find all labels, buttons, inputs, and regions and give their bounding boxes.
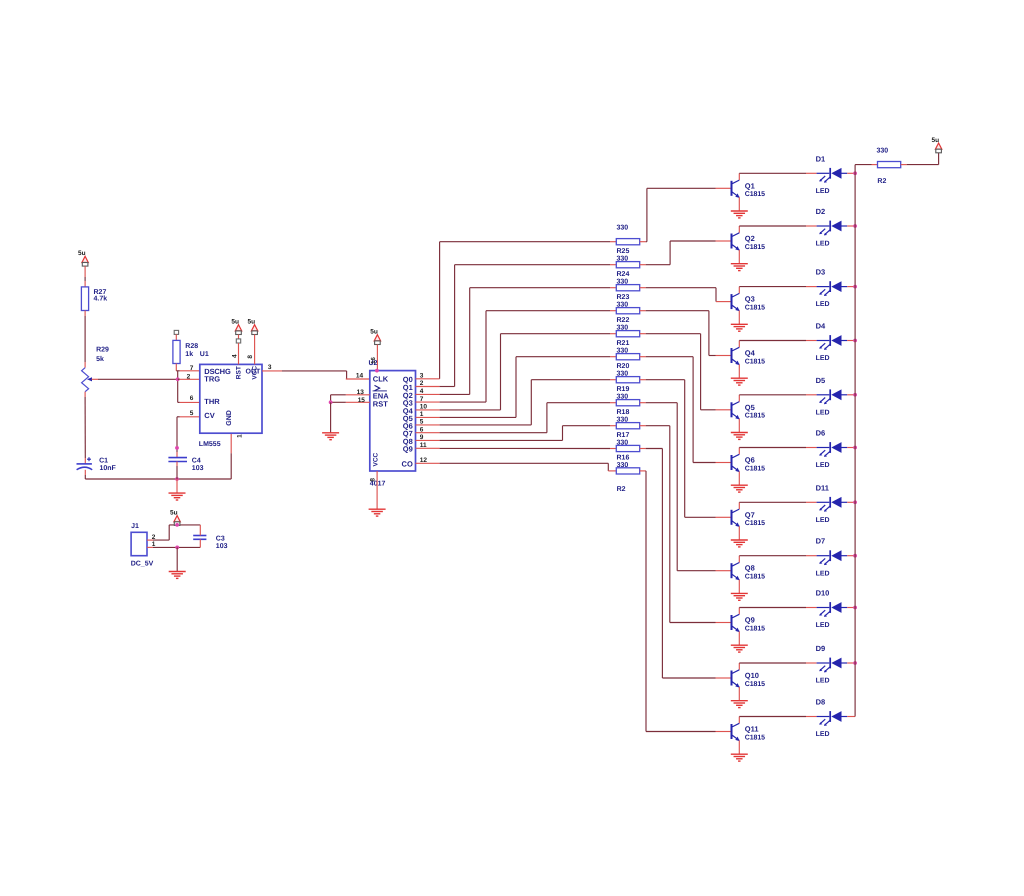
LED D6 left lead	[817, 447, 830, 449]
wire Q10 collector to D9	[739, 662, 806, 664]
LED D4	[829, 335, 831, 346]
junction bus D7	[853, 554, 857, 558]
wire Q8 collector to D7	[739, 555, 806, 557]
svg-text:330: 330	[617, 462, 629, 469]
wire R24 to Q2 base	[640, 264, 646, 266]
LED D11 light arrows	[819, 505, 830, 512]
svg-text:RST: RST	[236, 366, 243, 379]
resistor R21	[616, 331, 639, 337]
resistor R2 (bottom of column)	[616, 468, 639, 474]
transistor Q6	[732, 454, 740, 471]
svg-text:Q4: Q4	[745, 349, 756, 358]
svg-text:RST: RST	[373, 400, 388, 409]
wire J1 pin 2	[147, 539, 153, 541]
wire emitter to ground Q5	[738, 419, 740, 432]
svg-text:1: 1	[152, 541, 156, 548]
svg-text:330: 330	[877, 148, 889, 155]
wire emitter to ground Q11	[738, 741, 740, 754]
resistor R25	[616, 239, 639, 245]
LED D5	[829, 389, 831, 400]
wire R23 to Q3 base	[640, 287, 646, 289]
wire Q1 collector to D1	[739, 172, 806, 174]
transistor Q10	[732, 670, 740, 687]
svg-text:Q9: Q9	[403, 445, 413, 454]
wire power to 4017 VDD	[376, 345, 378, 371]
wire 4017 pin to R22	[416, 401, 440, 403]
wire 4017 pin to R25	[416, 378, 440, 380]
wire D2 anode to bus	[847, 225, 855, 227]
svg-text:13: 13	[357, 389, 365, 396]
svg-text:Q8: Q8	[745, 564, 755, 573]
wire 4017 pin to R17	[416, 439, 440, 441]
svg-text:5: 5	[190, 410, 194, 417]
wire D8 anode to bus	[847, 716, 855, 718]
junction bus D10	[853, 606, 857, 610]
svg-text:D2: D2	[816, 207, 826, 216]
svg-text:D1: D1	[816, 154, 826, 163]
svg-text:330: 330	[617, 394, 629, 401]
svg-text:8: 8	[369, 478, 376, 482]
potentiometer R29 wiper arrow	[87, 377, 92, 381]
wire R19 to Q7 base	[640, 379, 646, 381]
wire power to R27	[84, 266, 86, 277]
svg-text:5k: 5k	[96, 355, 104, 363]
transistor Q1 emitter arrow	[735, 193, 739, 198]
wire D10 anode to bus	[847, 607, 855, 609]
wire 4017 pin to R20	[416, 416, 440, 418]
svg-text:LED: LED	[816, 188, 830, 195]
svg-text:LED: LED	[816, 462, 830, 469]
wire 4017 pin to R19	[416, 424, 440, 426]
LED D6	[829, 442, 831, 453]
svg-text:330: 330	[617, 256, 629, 263]
junction VDD pin	[375, 369, 379, 373]
svg-text:5u: 5u	[78, 250, 86, 257]
wire power to RST square	[238, 335, 240, 339]
LED D9 light arrows	[819, 666, 830, 673]
resistor R18	[616, 400, 639, 406]
resistor R16	[616, 445, 639, 451]
counter U2 4017 body	[370, 371, 416, 471]
svg-text:C1815: C1815	[745, 520, 765, 527]
wire to 555 pin 5 CV	[177, 416, 180, 418]
LED D6 light arrows	[819, 450, 830, 457]
resistor R28	[173, 340, 180, 363]
svg-text:LED: LED	[816, 622, 830, 629]
wire D9 anode to bus	[847, 662, 855, 664]
transistor Q4 emitter arrow	[735, 361, 739, 366]
wire R21 to Q5 base	[640, 333, 646, 335]
svg-text:5u: 5u	[170, 509, 178, 516]
wire emitter to ground Q9	[738, 632, 740, 645]
capacitor C1	[77, 463, 92, 465]
svg-text:Q10: Q10	[745, 671, 759, 680]
svg-text:C1815: C1815	[745, 465, 765, 472]
power 5u (J1)	[174, 516, 180, 526]
LED D2	[829, 221, 831, 232]
transistor Q7 emitter arrow	[735, 522, 739, 527]
svg-text:330: 330	[617, 279, 629, 286]
potentiometer R29	[82, 368, 89, 392]
svg-text:LM555: LM555	[199, 441, 221, 448]
svg-text:C1815: C1815	[745, 734, 765, 741]
ground Q1	[731, 211, 748, 218]
wire R17 to Q9 base	[640, 425, 646, 427]
transistor Q3	[732, 293, 740, 310]
svg-text:330: 330	[617, 371, 629, 378]
wire 4017 pin to R23	[416, 393, 440, 395]
LED D9 right lead	[842, 662, 848, 664]
junction bus D2	[853, 224, 857, 228]
wire D7 anode to bus	[847, 555, 855, 557]
svg-text:4: 4	[231, 354, 238, 358]
transistor Q7	[732, 509, 740, 526]
svg-text:R22: R22	[617, 317, 630, 324]
svg-text:LED: LED	[816, 301, 830, 308]
capacitor C4	[168, 457, 187, 459]
LED D5 right lead	[842, 394, 848, 396]
junction CV-C4 pin dot	[175, 446, 179, 450]
wire C1 to ground rail	[84, 470, 86, 475]
LED D4 right lead	[842, 340, 848, 342]
LED D10 right lead	[842, 607, 848, 609]
wire square to chip RST	[238, 343, 240, 364]
transistor Q3 emitter arrow	[735, 307, 739, 312]
svg-text:5u: 5u	[231, 319, 239, 326]
wire Q9 collector to D10	[739, 607, 806, 609]
ground under 4017	[369, 509, 386, 516]
svg-text:C1815: C1815	[745, 413, 765, 420]
wire ENA pin 13	[346, 394, 370, 396]
capacitor C4 wire to rail	[176, 462, 178, 467]
ground Q9	[731, 645, 748, 652]
transistor Q9 emitter arrow	[735, 628, 739, 633]
LED D7	[829, 550, 831, 561]
wire J1 pin 1	[147, 546, 153, 548]
svg-text:3: 3	[268, 364, 272, 371]
ground symbol main rail	[176, 479, 178, 493]
wire D1 anode to bus	[847, 172, 855, 174]
wire OUT pin3 to 4017 CLK	[262, 370, 282, 372]
svg-text:330: 330	[617, 225, 629, 232]
wire 4017 pin 12 to R2 (bottom)	[416, 462, 440, 464]
wire Q4 collector to D4	[739, 340, 806, 342]
svg-text:D6: D6	[816, 429, 826, 438]
resistor R23	[616, 285, 639, 291]
ground ENA/RST	[322, 433, 339, 440]
wire R18 to Q8 base	[640, 402, 646, 404]
wire R22 to Q4 base	[640, 310, 646, 312]
svg-text:D7: D7	[816, 537, 826, 546]
ground under J1	[169, 572, 186, 579]
svg-text:CV: CV	[204, 411, 214, 420]
LED D3	[829, 281, 831, 292]
wire bus to R2	[855, 164, 871, 166]
wire collector riser Q5	[738, 395, 740, 402]
capacitor C3	[193, 535, 206, 537]
LED D7 left lead	[817, 555, 830, 557]
wire collector riser Q1	[738, 173, 740, 180]
U2 internal pin name ENA with overline	[373, 390, 387, 392]
wire 4017 pin to R24	[416, 386, 440, 388]
U2 clock triangle glyph	[375, 385, 380, 390]
wire R2 to power	[901, 164, 907, 166]
junction bus D6	[853, 446, 857, 450]
LED D5 left lead	[817, 394, 830, 396]
wire square to R28	[175, 334, 177, 340]
svg-text:16: 16	[370, 357, 377, 364]
svg-text:C1: C1	[99, 457, 108, 464]
LED D2 right lead	[842, 225, 848, 227]
power 5u (4017)	[374, 335, 380, 345]
svg-text:Q9: Q9	[745, 616, 755, 625]
svg-text:R23: R23	[617, 294, 630, 301]
LED D10	[829, 602, 831, 613]
wire R25 to Q1 base	[640, 241, 646, 243]
LED D10 light arrows	[819, 610, 830, 617]
ground Q8	[731, 593, 748, 600]
svg-text:R2: R2	[617, 486, 626, 493]
ground rail wire	[85, 478, 231, 480]
svg-text:Q11: Q11	[745, 725, 759, 734]
svg-text:Q1: Q1	[745, 181, 755, 190]
svg-text:C3: C3	[216, 535, 225, 542]
wire collector riser Q4	[738, 341, 740, 348]
svg-text:R18: R18	[617, 409, 630, 416]
svg-text:Q3: Q3	[745, 295, 755, 304]
svg-text:R25: R25	[617, 248, 630, 255]
junction C4 bottom / rail	[175, 477, 179, 481]
svg-text:2: 2	[152, 534, 156, 541]
svg-text:5u: 5u	[370, 329, 378, 336]
svg-text:CO: CO	[402, 460, 413, 469]
svg-text:DC_5V: DC_5V	[131, 561, 154, 568]
ground Q6	[731, 485, 748, 492]
LED D9	[829, 658, 831, 669]
wire to 555 pin 2 TRG	[178, 378, 180, 380]
ground Q5	[731, 433, 748, 440]
svg-text:15: 15	[358, 397, 366, 404]
LED D1 light arrows	[819, 176, 830, 183]
svg-text:C1815: C1815	[745, 304, 765, 311]
wire emitter to ground Q7	[738, 526, 740, 539]
svg-text:1k: 1k	[185, 350, 193, 358]
svg-text:C1815: C1815	[745, 244, 765, 251]
svg-text:Q6: Q6	[745, 456, 755, 465]
resistor R17	[616, 423, 639, 429]
wire Q11 collector to D8	[739, 716, 806, 718]
svg-text:330: 330	[617, 325, 629, 332]
svg-text:103: 103	[192, 465, 204, 472]
svg-text:LED: LED	[816, 678, 830, 685]
svg-text:J1: J1	[131, 523, 139, 530]
svg-text:R19: R19	[617, 386, 630, 393]
power 5u (555 RST)	[235, 325, 241, 335]
wire collector riser Q6	[738, 448, 740, 455]
resistor R22	[616, 308, 639, 314]
svg-text:LED: LED	[816, 731, 830, 738]
transistor Q11 emitter arrow	[735, 737, 739, 742]
wire R29 to C1	[84, 392, 86, 397]
svg-text:6: 6	[190, 395, 194, 402]
svg-text:C1815: C1815	[745, 574, 765, 581]
wire 4017 pin 11 to R16	[416, 447, 440, 449]
ground Q4	[731, 378, 748, 385]
svg-text:D5: D5	[816, 376, 826, 385]
svg-text:VCC: VCC	[252, 366, 259, 380]
wire collector riser Q11	[738, 717, 740, 724]
wire collector riser Q10	[738, 663, 740, 670]
LED D4 light arrows	[819, 343, 830, 350]
power 5u (R27)	[82, 256, 88, 266]
capacitor C3 bottom wire	[199, 539, 201, 547]
junction bus D4	[853, 339, 857, 343]
wire D3 anode to bus	[847, 286, 855, 288]
wire Q6 collector to D6	[739, 447, 806, 449]
wire power to chip VCC	[254, 335, 256, 365]
power 5u (bus)	[935, 143, 941, 153]
resistor R28 no-connect square	[174, 330, 178, 334]
wire rail up to 555 pin 1	[230, 453, 232, 479]
capacitor C3 top wire	[199, 525, 201, 536]
5u rail above J1	[169, 524, 200, 526]
svg-text:D3: D3	[816, 268, 826, 277]
LED D1	[829, 168, 831, 179]
LED D7 light arrows	[819, 558, 830, 565]
wire collector riser Q8	[738, 556, 740, 563]
resistor R19	[616, 377, 639, 383]
junction power-rail	[175, 523, 179, 527]
wire R16 to Q10 base	[640, 448, 646, 450]
junction bus D11	[853, 500, 857, 504]
LED D11	[829, 497, 831, 508]
LED D2 light arrows	[819, 229, 830, 236]
transistor Q6 emitter arrow	[735, 468, 739, 473]
svg-text:8: 8	[247, 355, 254, 359]
svg-text:C1815: C1815	[745, 681, 765, 688]
LED D3 right lead	[842, 286, 848, 288]
wire emitter to ground Q10	[738, 687, 740, 700]
svg-text:14: 14	[356, 373, 364, 380]
transistor Q5	[732, 402, 740, 419]
wire R29 wiper to TRG	[92, 378, 98, 380]
ground Q2	[731, 264, 748, 271]
svg-text:C1815: C1815	[745, 625, 765, 632]
wire emitter to ground Q6	[738, 472, 740, 485]
wire emitter to ground Q3	[738, 311, 740, 324]
resistor R27	[81, 287, 88, 311]
svg-text:330: 330	[617, 348, 629, 355]
junction bus D9	[853, 661, 857, 665]
LED D6 right lead	[842, 447, 848, 449]
LED D4 left lead	[817, 340, 830, 342]
svg-text:THR: THR	[204, 397, 220, 406]
wire D11 anode to bus	[847, 501, 855, 503]
svg-text:103: 103	[216, 543, 228, 550]
RST pin4 square	[236, 339, 240, 343]
svg-text:C4: C4	[192, 457, 201, 464]
svg-text:R29: R29	[96, 347, 109, 354]
svg-text:1: 1	[237, 434, 244, 438]
LED D11 left lead	[817, 501, 830, 503]
transistor Q2	[732, 233, 740, 250]
capacitor C1 plus sign	[87, 458, 91, 460]
transistor Q1	[732, 180, 740, 197]
LED D11 right lead	[842, 501, 848, 503]
ground under C4	[169, 493, 186, 500]
resistor R2 (top)	[878, 162, 901, 168]
svg-text:R2: R2	[877, 178, 886, 185]
transistor Q4	[732, 347, 740, 364]
wire to 555 pin 7 DSCHG	[176, 370, 180, 372]
svg-text:R17: R17	[617, 432, 630, 439]
transistor Q8	[732, 563, 740, 580]
svg-text:4.7k: 4.7k	[94, 295, 108, 303]
LED D7 right lead	[842, 555, 848, 557]
wire emitter to ground Q4	[738, 365, 740, 378]
ground Q7	[731, 540, 748, 547]
connector J1 body	[131, 532, 147, 555]
wire down to ground (ENA/RST)	[330, 402, 332, 432]
svg-text:5u: 5u	[248, 319, 256, 326]
wire R20 to Q6 base	[640, 356, 646, 358]
wire collector riser Q3	[738, 287, 740, 294]
wire tie DSCHG-TRG-THR vertical	[177, 371, 179, 403]
transistor Q11	[732, 723, 740, 740]
LED D3 light arrows	[819, 289, 830, 296]
wire emitter to ground Q2	[738, 250, 740, 263]
wire 4017 pin to R21	[416, 409, 440, 411]
wire collector riser Q2	[738, 226, 740, 233]
junction bus D3	[853, 285, 857, 289]
wire CV to C4	[176, 417, 178, 452]
svg-text:D11: D11	[816, 483, 829, 492]
LED D1 right lead	[842, 172, 848, 174]
wire R27 to R29	[84, 311, 86, 317]
ground Q3	[731, 324, 748, 331]
ground Q11	[731, 754, 748, 761]
junction J1 pin1 / ground	[175, 546, 179, 550]
wire Q7 collector to D11	[739, 501, 806, 503]
wire to 555 pin 6 THR	[178, 401, 180, 403]
svg-text:D10: D10	[816, 589, 830, 598]
transistor Q2 emitter arrow	[735, 246, 739, 251]
svg-text:330: 330	[617, 439, 629, 446]
ground Q10	[731, 701, 748, 708]
svg-text:VCC: VCC	[373, 452, 380, 466]
svg-text:Q7: Q7	[745, 510, 755, 519]
svg-text:D4: D4	[816, 322, 826, 331]
svg-text:R16: R16	[617, 455, 630, 462]
svg-text:2: 2	[187, 373, 191, 380]
wire emitter to ground Q1	[738, 197, 740, 210]
wire D5 anode to bus	[847, 394, 855, 396]
LED D9 left lead	[817, 662, 830, 664]
transistor Q10 emitter arrow	[735, 683, 739, 688]
LED D10 left lead	[817, 607, 830, 609]
wire 4017 pin to R18	[416, 432, 440, 434]
wire Q3 collector to D3	[739, 286, 806, 288]
junction bus D1	[853, 171, 857, 175]
svg-text:R24: R24	[617, 271, 630, 278]
svg-text:LED: LED	[816, 570, 830, 577]
junction TRG	[176, 377, 180, 381]
LED D8	[829, 711, 831, 722]
LED D8 right lead	[842, 716, 848, 718]
svg-text:330: 330	[617, 417, 629, 424]
svg-text:R20: R20	[617, 363, 630, 370]
wire D4 anode to bus	[847, 340, 855, 342]
